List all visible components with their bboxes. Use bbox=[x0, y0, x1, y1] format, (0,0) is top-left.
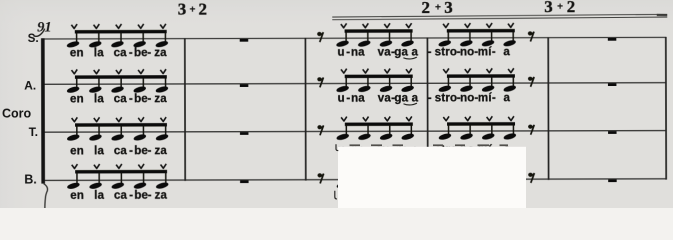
S m1 note 2 bbox=[88, 24, 102, 49]
T m1 note 1 bbox=[66, 117, 80, 142]
A m4 note 2 bbox=[460, 68, 474, 93]
T m3 note 1 bbox=[336, 117, 350, 142]
T m4 beam bbox=[447, 122, 515, 126]
T m4 note 4 bbox=[503, 116, 517, 141]
B m1 beam bbox=[75, 170, 167, 174]
staff line S bbox=[41, 37, 666, 39]
B m4 beam bbox=[447, 169, 515, 173]
A m4 note 3 bbox=[481, 68, 495, 93]
B m1 note 2 bbox=[89, 164, 103, 190]
T lyric remnant dash 7 bbox=[500, 144, 509, 146]
A m4 lyrics: -stro-no-mi-a bbox=[428, 91, 511, 104]
B m4 note 1 bbox=[438, 163, 452, 189]
S m4 note 3 bbox=[481, 23, 495, 48]
B m3 note 3 bbox=[379, 163, 393, 189]
B m3 eighth rest bbox=[318, 173, 324, 183]
measure number 91 bbox=[34, 19, 52, 36]
S m4 note 1 bbox=[438, 23, 452, 48]
A m2 whole rest bbox=[240, 84, 249, 87]
S m3 eighth rest bbox=[317, 32, 323, 42]
B m1 lyrics: en la ca-be-za bbox=[70, 189, 167, 202]
T m1 note 4 bbox=[133, 117, 147, 142]
A m1 note 3 bbox=[111, 69, 125, 94]
T m1 note 2 bbox=[89, 117, 103, 142]
T m1 beam bbox=[75, 123, 167, 127]
barline 2 bbox=[184, 38, 186, 181]
B m5 whole rest bbox=[608, 179, 617, 182]
T m3 eighth rest bbox=[317, 125, 323, 135]
T m3 note 3 bbox=[379, 116, 393, 141]
B m3 note 1 bbox=[336, 163, 350, 189]
B m1 note 3 bbox=[111, 164, 125, 190]
S m1 note 3 bbox=[111, 24, 125, 49]
B m3 note 2 bbox=[358, 163, 372, 189]
B m3 note 4 bbox=[401, 163, 415, 189]
S m3 note 1 bbox=[336, 23, 350, 48]
staff line B bbox=[42, 179, 667, 181]
T lyric remnant dash 5 bbox=[455, 144, 465, 146]
A m3 note 3 bbox=[379, 69, 393, 94]
T m4 eighth rest bbox=[528, 125, 534, 135]
A m3 lyrics: u-na va-ga_a bbox=[338, 92, 419, 105]
T m1 note 3 bbox=[111, 117, 125, 142]
S m1 beam bbox=[75, 30, 167, 34]
white occlusion box (bottom middle) bbox=[338, 147, 526, 209]
staff line A bbox=[41, 83, 666, 85]
barline 3 bbox=[304, 38, 306, 181]
system barline (thick, start) bbox=[41, 38, 45, 183]
staff line T bbox=[42, 131, 667, 133]
A m3 note 1 bbox=[336, 69, 350, 94]
A m3 note 2 bbox=[357, 69, 371, 94]
T m3 lyrics: u-na va-ga_a bbox=[338, 144, 419, 157]
A m1 lyrics: en la ca-be-za bbox=[70, 92, 167, 105]
B m4 lyrics: -stro-no-mi-a bbox=[428, 188, 511, 201]
B m3 lyrics: u-na va-ga_a bbox=[338, 188, 419, 201]
S m3 note 4 bbox=[401, 23, 415, 48]
A m1 beam bbox=[75, 75, 167, 79]
A m3 eighth rest bbox=[317, 77, 323, 87]
system continuation curve (bottom left) bbox=[44, 184, 48, 209]
T lyric remnant hook (u) bbox=[336, 144, 338, 150]
A m1 note 1 bbox=[66, 69, 80, 94]
T m3 note 4 bbox=[401, 116, 415, 141]
T lyric remnant dash 1 bbox=[350, 144, 361, 146]
S m1 note 5 bbox=[155, 24, 169, 49]
B m1 note 4 bbox=[133, 164, 147, 190]
T m2 whole rest bbox=[240, 132, 249, 135]
T lyric remnant dash 6 bbox=[478, 144, 490, 146]
A m5 whole rest bbox=[608, 83, 617, 86]
T lyric remnant dash 4 bbox=[433, 144, 443, 146]
T m3 note 2 bbox=[358, 117, 372, 142]
T m4 lyrics: -stro-no-mi-a bbox=[428, 143, 511, 156]
T m4 note 3 bbox=[481, 116, 495, 141]
S m1 note 4 bbox=[133, 24, 147, 49]
S m5 whole rest bbox=[608, 38, 617, 41]
barline 5 bbox=[547, 37, 549, 180]
S m3 note 2 bbox=[357, 23, 371, 48]
grouping label 3+2 (first) bbox=[178, 0, 207, 19]
S m4 eighth rest bbox=[528, 31, 534, 41]
B lyric remnant (u fragment) bbox=[335, 191, 337, 199]
S m3 note 3 bbox=[379, 23, 393, 48]
T m5 whole rest bbox=[608, 131, 617, 134]
B m1 note 5 bbox=[155, 164, 169, 190]
A m4 note 1 bbox=[438, 68, 452, 93]
barline 4 bbox=[426, 37, 428, 180]
B m4 note 3 bbox=[481, 163, 495, 189]
A m4 eighth rest bbox=[528, 77, 534, 87]
T m4 note 1 bbox=[438, 116, 452, 141]
grouping label 3+2 (second) bbox=[544, 0, 575, 16]
B m4 note 2 bbox=[460, 163, 474, 189]
A m1 note 2 bbox=[88, 69, 102, 94]
T m4 note 2 bbox=[460, 116, 474, 141]
A m3 note 4 bbox=[401, 69, 415, 94]
A m1 note 5 bbox=[155, 69, 169, 94]
T m1 lyrics: en la ca-be-za bbox=[70, 144, 167, 157]
S m2 whole rest bbox=[240, 39, 249, 42]
B m1 note 1 bbox=[66, 164, 80, 190]
barline 6 bbox=[665, 37, 667, 180]
S m1 lyrics: en la ca-be-za bbox=[70, 46, 167, 59]
S m4 note 4 bbox=[503, 23, 517, 48]
A m4 note 4 bbox=[503, 68, 517, 93]
T m1 note 5 bbox=[155, 117, 169, 142]
A m4 beam bbox=[447, 74, 515, 78]
S m4 lyrics: -stro-no-mi-a bbox=[428, 45, 511, 58]
B m2 whole rest bbox=[240, 180, 249, 183]
S m3 beam bbox=[345, 29, 413, 33]
A m3 beam bbox=[345, 75, 413, 79]
S m4 note 2 bbox=[459, 23, 473, 48]
T lyric remnant dash 3 bbox=[393, 144, 404, 146]
grouping extent double line bbox=[332, 14, 667, 19]
S m4 beam bbox=[447, 29, 515, 33]
B m3 beam bbox=[345, 169, 413, 173]
S m3 lyrics: u-na va-ga_a bbox=[338, 46, 419, 59]
T lyric remnant dash 2 bbox=[371, 144, 382, 146]
grouping label 2+3 bbox=[421, 0, 452, 17]
B m4 eighth rest bbox=[528, 173, 534, 183]
T m3 beam bbox=[345, 122, 413, 126]
B m4 note 4 bbox=[503, 163, 517, 189]
A m1 note 4 bbox=[133, 69, 147, 94]
S m1 note 1 bbox=[66, 24, 80, 49]
